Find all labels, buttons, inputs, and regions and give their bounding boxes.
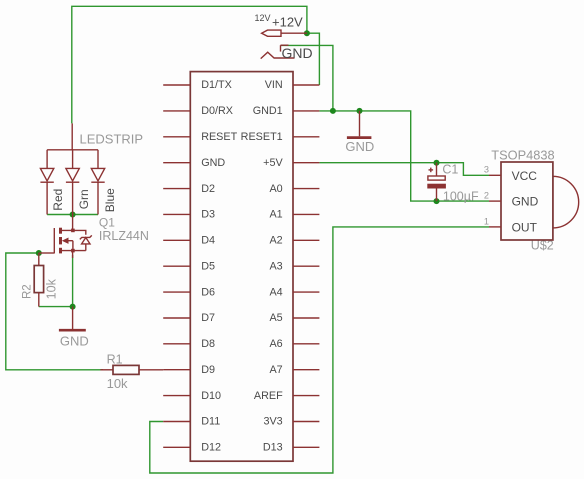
pin A4 bbox=[269, 286, 319, 298]
svg-text:2: 2 bbox=[484, 191, 489, 201]
lens bbox=[553, 176, 579, 228]
svg-text:VCC: VCC bbox=[512, 169, 538, 183]
svg-text:A1: A1 bbox=[269, 209, 282, 221]
svg-text:A5: A5 bbox=[269, 312, 282, 324]
LED Red bbox=[40, 150, 65, 215]
GND symbol (right, below GND1) bbox=[345, 111, 374, 154]
svg-text:LEDSTRIP: LEDSTRIP bbox=[80, 131, 144, 146]
svg-text:D3: D3 bbox=[201, 209, 215, 221]
pin D9 bbox=[163, 364, 215, 376]
IC U1 main box bbox=[190, 72, 293, 462]
svg-text:Grn: Grn bbox=[77, 189, 91, 209]
drain link bbox=[62, 230, 86, 234]
svg-text:GND: GND bbox=[345, 139, 374, 154]
svg-text:A6: A6 bbox=[269, 338, 282, 350]
pin D12 bbox=[163, 442, 221, 454]
pin A5 bbox=[269, 312, 319, 324]
node junction GND1/top bbox=[330, 108, 336, 114]
resistor R1 bbox=[100, 352, 163, 391]
drain wire from LED rail bbox=[72, 215, 74, 231]
pin D6 bbox=[163, 286, 215, 298]
pin AREF bbox=[254, 390, 319, 402]
svg-text:D8: D8 bbox=[201, 338, 215, 350]
pin D7 bbox=[163, 312, 215, 324]
gate bar bbox=[53, 228, 55, 253]
pin +5V bbox=[263, 157, 319, 169]
svg-text:D11: D11 bbox=[201, 416, 220, 428]
pin D10 bbox=[163, 390, 221, 402]
IC U$2 TSOP4838 bbox=[484, 148, 579, 253]
LED Blue bbox=[91, 150, 117, 215]
pin VIN bbox=[265, 79, 320, 91]
LEDSTRIP symbol bbox=[47, 123, 143, 149]
svg-text:D12: D12 bbox=[201, 442, 221, 454]
pin A7 bbox=[269, 364, 319, 376]
svg-text:3: 3 bbox=[484, 165, 489, 175]
node junction LED rail / drain bbox=[70, 212, 76, 218]
pin D11 bbox=[163, 416, 220, 428]
pin D5 bbox=[163, 260, 215, 272]
node junction +5V/C1 bbox=[434, 160, 440, 166]
pin A3 bbox=[269, 260, 319, 272]
wire GND1 net run bbox=[319, 111, 489, 201]
svg-text:D2: D2 bbox=[201, 183, 215, 195]
pin D0/RX bbox=[163, 105, 233, 117]
wire GND supply to GND1 net bbox=[281, 45, 333, 111]
svg-text:GND: GND bbox=[201, 157, 225, 169]
svg-text:IRLZ44N: IRLZ44N bbox=[99, 229, 149, 243]
supply GND symbol (top) bbox=[261, 45, 313, 61]
svg-text:A7: A7 bbox=[269, 364, 282, 376]
svg-text:12V: 12V bbox=[255, 13, 271, 23]
node junction source/R2/GND bbox=[70, 304, 76, 310]
pin D13 bbox=[263, 442, 320, 454]
pin 2 GND bbox=[489, 200, 501, 202]
svg-text:D13: D13 bbox=[263, 442, 283, 454]
svg-text:A3: A3 bbox=[269, 260, 282, 272]
pin 3 VCC bbox=[489, 174, 501, 176]
pin A0 bbox=[269, 183, 319, 195]
pin A1 bbox=[269, 209, 319, 221]
pin D1/TX bbox=[163, 79, 232, 91]
wire source to R2 bottom bbox=[39, 255, 73, 307]
source link bbox=[62, 250, 86, 252]
wire +5V net run bbox=[319, 163, 489, 176]
svg-text:D0/RX: D0/RX bbox=[201, 105, 233, 117]
svg-text:GND1: GND1 bbox=[253, 105, 283, 117]
svg-text:10k: 10k bbox=[45, 278, 59, 299]
svg-text:R2: R2 bbox=[21, 284, 33, 299]
resistor R2 bbox=[21, 253, 58, 307]
pin GND bbox=[163, 157, 225, 169]
svg-text:AREF: AREF bbox=[254, 390, 283, 402]
svg-text:R1: R1 bbox=[107, 352, 123, 366]
svg-text:RESET1: RESET1 bbox=[241, 131, 283, 143]
svg-text:C1: C1 bbox=[442, 163, 458, 177]
capacitor C1 bbox=[427, 163, 479, 204]
pin D8 bbox=[163, 338, 215, 350]
svg-text:1: 1 bbox=[484, 216, 489, 226]
pin RESET1 bbox=[241, 131, 320, 143]
gate lead bbox=[39, 252, 55, 254]
svg-text:A4: A4 bbox=[269, 286, 282, 298]
svg-text:D6: D6 bbox=[201, 286, 215, 298]
body diode bbox=[82, 238, 90, 244]
svg-text:RESET: RESET bbox=[201, 131, 237, 143]
svg-text:D1/TX: D1/TX bbox=[201, 79, 232, 91]
svg-text:GND: GND bbox=[60, 334, 89, 349]
svg-text:100µF: 100µF bbox=[443, 189, 479, 203]
node junction gate/R2 bbox=[36, 250, 42, 256]
transistor Q1 IRLZ44N bbox=[39, 215, 149, 259]
svg-text:D5: D5 bbox=[201, 260, 215, 272]
svg-text:A0: A0 bbox=[269, 183, 282, 195]
svg-text:3V3: 3V3 bbox=[263, 416, 282, 428]
svg-text:OUT: OUT bbox=[512, 221, 538, 235]
svg-text:VIN: VIN bbox=[265, 79, 283, 91]
svg-text:Q1: Q1 bbox=[99, 215, 115, 229]
svg-text:D7: D7 bbox=[201, 312, 215, 324]
channel bars bbox=[59, 228, 62, 234]
wire OUT net to D11 bbox=[150, 227, 489, 473]
supply +12V symbol bbox=[255, 13, 307, 36]
svg-text:Blue: Blue bbox=[103, 188, 117, 212]
pin D4 bbox=[163, 235, 215, 247]
svg-text:Red: Red bbox=[51, 189, 65, 211]
svg-text:D10: D10 bbox=[201, 390, 221, 402]
svg-text:D4: D4 bbox=[201, 235, 215, 247]
node junction GND1/C1 bbox=[434, 198, 440, 204]
substrate arrow bbox=[66, 240, 73, 242]
svg-text:D9: D9 bbox=[201, 364, 215, 376]
svg-text:GND: GND bbox=[282, 45, 313, 61]
svg-text:+12V: +12V bbox=[272, 15, 303, 30]
pin 1 OUT bbox=[489, 226, 501, 228]
pin A2 bbox=[269, 235, 319, 247]
wire +12V to VIN bbox=[307, 33, 320, 85]
LED Grn bbox=[66, 150, 91, 215]
source lead down bbox=[72, 251, 74, 258]
pin RESET bbox=[163, 131, 237, 143]
svg-text:+5V: +5V bbox=[263, 157, 283, 169]
svg-text:GND: GND bbox=[512, 195, 539, 209]
pin D3 bbox=[163, 209, 215, 221]
svg-text:10k: 10k bbox=[107, 376, 128, 391]
wire LED cathode rail bbox=[47, 214, 98, 216]
pin anode common bbox=[71, 123, 73, 149]
wire gate net to R1 bbox=[6, 253, 103, 370]
wire +12V net: top rail to LEDSTRIP pin bbox=[72, 6, 307, 123]
pin A6 bbox=[269, 338, 319, 350]
ground GND (left) bbox=[59, 307, 89, 349]
pin GND1 bbox=[253, 105, 320, 117]
svg-text:TSOP4838: TSOP4838 bbox=[491, 148, 554, 163]
svg-text:A2: A2 bbox=[269, 235, 282, 247]
pin 3V3 bbox=[263, 416, 319, 428]
node junction +12V bbox=[304, 30, 310, 36]
node junction GND1/gnd-symbol bbox=[357, 108, 363, 114]
pin D2 bbox=[163, 183, 215, 195]
